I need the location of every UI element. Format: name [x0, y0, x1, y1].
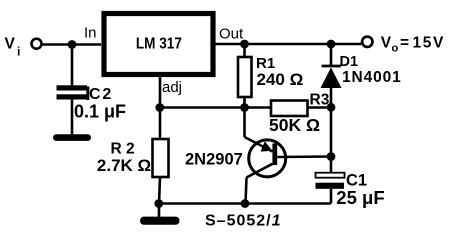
- svg-text:LM 317: LM 317: [136, 36, 182, 53]
- svg-text:15V: 15V: [413, 35, 445, 52]
- svg-text:25 μF: 25 μF: [336, 187, 384, 208]
- wire adj horizontal: [160, 106, 271, 109]
- transistor Q1 2N2907: [245, 108, 332, 204]
- svg-text:V: V: [381, 35, 392, 52]
- diode D1: [321, 44, 342, 107]
- wire adj pin: [159, 76, 162, 108]
- svg-text:R 2: R 2: [111, 141, 135, 158]
- svg-text:Out: Out: [219, 26, 244, 43]
- svg-text:R3: R3: [310, 91, 330, 108]
- wire output: [213, 43, 361, 46]
- wire bottom rail: [159, 202, 331, 205]
- svg-text:1N4001: 1N4001: [342, 69, 402, 86]
- svg-text:V: V: [5, 36, 16, 53]
- capacitor C2: [57, 85, 90, 135]
- resistor R2: [153, 108, 169, 204]
- node R3 right junction: [327, 103, 336, 112]
- svg-text:i: i: [17, 45, 20, 59]
- svg-text:50K Ω: 50K Ω: [269, 115, 320, 135]
- wire to C2: [71, 45, 74, 87]
- svg-text:adj: adj: [162, 79, 182, 96]
- ground below C2: [53, 134, 91, 141]
- node collector junction: [241, 199, 250, 208]
- emitter with arrow: [243, 108, 246, 138]
- node R1 bottom junction: [240, 103, 249, 112]
- node Vo label: [381, 35, 445, 55]
- wire input: [42, 43, 101, 46]
- svg-text:2N2907: 2N2907: [185, 150, 243, 168]
- node base junction: [327, 152, 336, 161]
- svg-text:240 Ω: 240 Ω: [257, 70, 304, 89]
- resistor R1: [238, 44, 252, 108]
- terminal Vi: [32, 39, 42, 49]
- capacitor C1: [316, 157, 345, 204]
- node Vi label: [5, 36, 21, 59]
- resistor R3: [271, 101, 331, 117]
- ground below R2: [140, 204, 180, 225]
- collector: [247, 164, 273, 178]
- svg-text:D1: D1: [340, 54, 359, 70]
- svg-text:S–5052/1: S–5052/1: [205, 213, 282, 230]
- base lead: [277, 155, 331, 158]
- node adj junction: [155, 103, 164, 112]
- node ground junction: [154, 199, 163, 208]
- terminal Vo: [362, 37, 372, 47]
- wire D1 node to base node: [330, 107, 333, 156]
- svg-text:o: o: [392, 43, 399, 55]
- svg-text:C2: C2: [89, 86, 113, 103]
- svg-text:=: =: [400, 35, 409, 52]
- svg-text:In: In: [84, 25, 97, 42]
- node In junction: [68, 40, 77, 49]
- op-amp U1 LM317 regulator box: [104, 14, 213, 75]
- node R1 top junction: [240, 40, 249, 49]
- node D1 top junction: [327, 40, 336, 49]
- svg-text:0.1 μF: 0.1 μF: [74, 102, 126, 122]
- svg-text:2.7K Ω: 2.7K Ω: [97, 156, 151, 175]
